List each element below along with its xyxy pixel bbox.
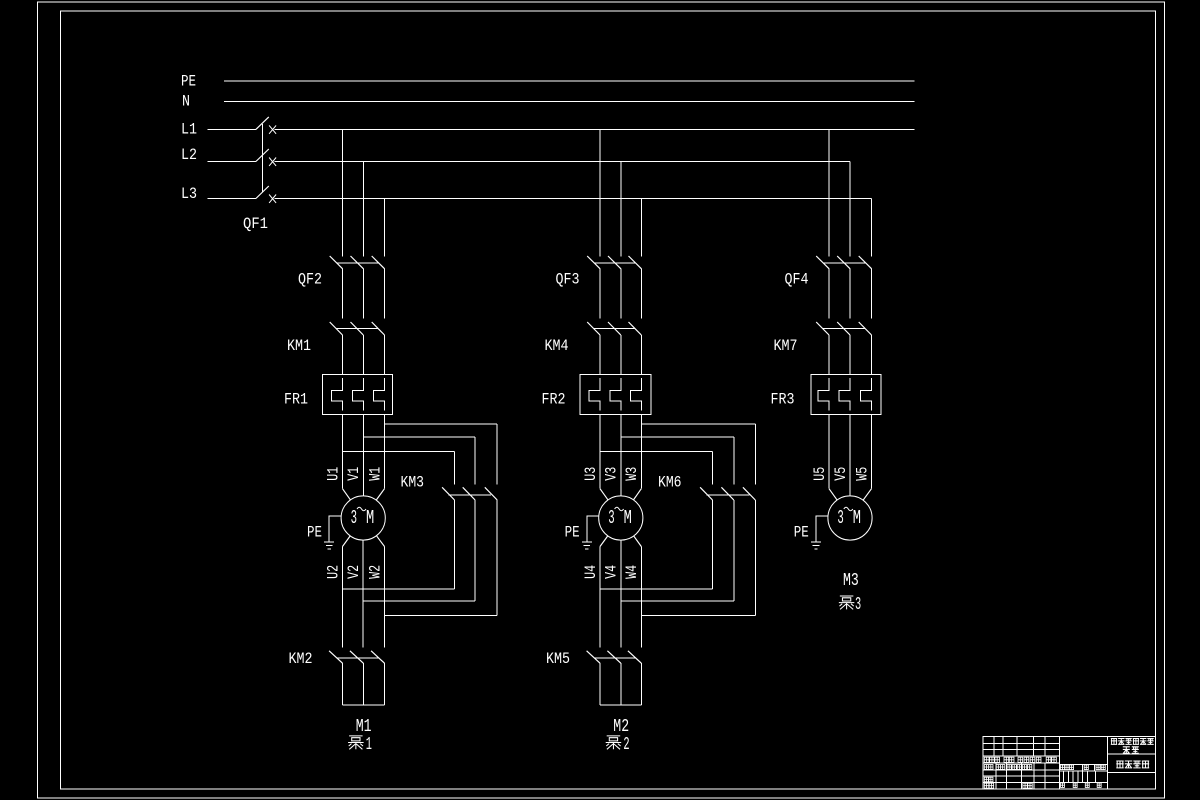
node star point bar (motor M2): [600, 704, 641, 706]
wire KM3 pole 3 lower: [496, 500, 498, 616]
circuit-breaker QF4 pole 1 blade: [816, 256, 829, 269]
circuit-breaker QF3 pole 1 blade: [587, 256, 600, 269]
wire branch1 phase-1 slant into motor: [343, 489, 351, 500]
title block left grid columns lower: [996, 763, 1045, 789]
svg-text:L3: L3: [181, 185, 197, 203]
wire branch3 phase-2 FR3 to motor: [849, 414, 851, 496]
svg-text:W3: W3: [623, 467, 641, 481]
wire branch2 phase-3 FR2 to motor: [640, 414, 642, 488]
wire KM2 pole 3 to star point: [384, 663, 386, 705]
contactor KM5 pole 3 blade: [628, 651, 641, 663]
wire branch2 phase-1 FR2 to motor: [599, 414, 601, 488]
title block left grid rows: [983, 744, 1059, 783]
svg-text:U3: U3: [582, 467, 600, 481]
title block outline: [983, 737, 1155, 790]
wire branch2 terminal 2-1 to KM5: [599, 547, 601, 648]
contactor KM1 pole 2 blade: [351, 322, 364, 335]
contactor KM4 linkage bar: [594, 328, 635, 330]
label pump M3: [839, 595, 861, 615]
wire branch3 phase-1 slant into motor: [829, 489, 837, 500]
contactor KM4 pole 1 blade: [587, 322, 600, 335]
svg-text:FR3: FR3: [771, 391, 795, 409]
wire branch3 phase-1 drop from L1: [828, 129, 830, 256]
wire branch3 phase-3 drop from L3: [871, 199, 873, 257]
svg-text:U4: U4: [582, 565, 600, 579]
contactor KM4 pole 2 blade: [608, 322, 621, 335]
wire KM3 pole 1 upper: [454, 452, 456, 485]
svg-text:KM1: KM1: [287, 337, 311, 355]
wire motor M2 terminal 2-1 slant: [600, 536, 608, 547]
thermal-relay FR2 heater element 3: [630, 378, 641, 411]
wire branch1 phase-3 slant into motor: [376, 489, 384, 500]
svg-text:QF3: QF3: [556, 271, 580, 289]
circuit-breaker QF2 pole 1 blade: [330, 256, 343, 269]
ground symbol (motor M3): [811, 542, 821, 549]
wire branch1 terminal 2-1 to KM2: [342, 547, 344, 648]
svg-text:KM4: KM4: [545, 337, 569, 355]
svg-text:N: N: [182, 93, 190, 111]
isolator QF1 L3 fuse x-mark: [269, 195, 276, 203]
wire branch2 phase-3 slant into motor: [633, 489, 641, 500]
title block school name line 2: [1123, 746, 1139, 753]
wire branch2 phase-2 KM4 to FR2: [620, 335, 622, 374]
wire branch3 phase-3 KM7 to FR3: [871, 335, 873, 374]
wire motor M2 terminal 2-2 down: [620, 540, 622, 647]
svg-text:PE: PE: [181, 73, 196, 91]
svg-text:PE: PE: [307, 524, 322, 542]
svg-text:U2: U2: [324, 565, 342, 579]
wire branch3 phase-3 FR3 to motor: [871, 414, 873, 488]
wire tap branch1 phase-1 to KM3 pole 1: [343, 451, 455, 453]
wire KM2 pole 2 to star point: [362, 663, 364, 705]
wire tap branch1 phase-3 to KM3 pole 3: [385, 423, 498, 425]
svg-text:V1: V1: [345, 467, 363, 481]
wire branch1 phase-1 FR1 to motor: [342, 414, 344, 488]
wire branch3 phase-1 KM7 to FR3: [828, 335, 830, 374]
circuit-breaker QF2 pole 3 blade: [372, 256, 385, 269]
title block middle label row columns: [1082, 765, 1094, 772]
wire tap branch2 phase-1 to KM6 pole 1: [600, 451, 713, 453]
thermal-relay FR1 heater element 1: [332, 378, 343, 411]
wire branch2 phase-3 drop from L3: [640, 199, 642, 257]
isolator QF1 L1 blade: [256, 117, 269, 129]
wire motor M1 terminal 2-3 slant: [376, 536, 384, 547]
wire tap branch2 phase-3 to KM6 pole 3: [641, 423, 755, 425]
wire KM6 pole 3 lower: [754, 500, 756, 616]
circuit-breaker QF4 linkage bar: [823, 262, 866, 264]
contactor KM2 pole 2 blade: [350, 651, 363, 663]
label pump M1: [348, 735, 372, 755]
svg-text:M2: M2: [613, 717, 629, 737]
svg-text:3: 3: [837, 507, 843, 529]
wire branch1 phase-2 FR1 to motor: [362, 414, 364, 496]
svg-text:M: M: [853, 507, 861, 529]
contactor KM5 linkage bar: [594, 657, 635, 659]
wire branch2 terminal 2-3 to KM5: [640, 547, 642, 648]
wire link motor terminal 2-1 to KM3 pole 1: [343, 588, 455, 590]
wire KM6 pole 2 upper: [733, 437, 735, 485]
wire branch2 phase-1 slant into motor: [600, 489, 608, 500]
wire motor M3 frame to earth: [816, 516, 828, 542]
svg-text:W4: W4: [623, 565, 641, 579]
wire branch2 phase-3 KM4 to FR2: [640, 335, 642, 374]
ground symbol (motor M1): [324, 542, 334, 549]
wire branch3 phase-2 KM7 to FR3: [849, 335, 851, 374]
svg-text:PE: PE: [794, 524, 809, 542]
svg-text:V2: V2: [345, 565, 363, 579]
svg-text:W5: W5: [853, 467, 871, 481]
wire KM3 pole 3 upper: [496, 424, 498, 485]
svg-text:M: M: [366, 507, 374, 529]
label pump M2: [606, 735, 630, 755]
ground symbol (motor M2): [582, 542, 592, 549]
title block school name line 1: [1111, 738, 1154, 744]
wire branch1 phase-3 KM1 to FR1: [384, 335, 386, 374]
bus wire L3: [275, 198, 872, 200]
thermal-relay FR3 heater element 3: [861, 378, 872, 411]
motor M3 circle: [828, 496, 872, 540]
thermal-relay FR2 heater element 2: [610, 378, 621, 411]
wire branch1 phase-3 drop from L3: [384, 199, 386, 257]
wire link motor terminal 2-3 to KM6 pole 3: [641, 615, 755, 617]
circuit-breaker QF4 pole 2 blade: [837, 256, 850, 269]
contactor KM3 pole 3 blade: [485, 487, 497, 500]
wire branch3 phase-2 drop from L2: [849, 162, 851, 257]
svg-text:2: 2: [623, 735, 629, 755]
motor M1 tilde: [357, 507, 366, 510]
wire motor M1 terminal 2-2 down: [362, 540, 364, 647]
wire link motor terminal 2-1 to KM6 pole 1: [600, 588, 713, 590]
wire branch2 phase-2 drop from L2: [620, 162, 622, 257]
wire branch1 phase-2 QF2 to KM1: [362, 269, 364, 319]
circuit-breaker QF3 pole 3 blade: [629, 256, 642, 269]
svg-text:KM2: KM2: [289, 650, 313, 668]
bus wire L2 left stub: [208, 161, 256, 163]
contactor KM6 pole 2 blade: [721, 487, 733, 500]
wire KM6 pole 1 upper: [712, 452, 714, 485]
svg-text:M1: M1: [356, 717, 372, 737]
title block sheet count text: [1061, 783, 1102, 787]
title block middle labels: [1060, 765, 1105, 770]
node star point bar (motor M1): [343, 704, 385, 706]
wire tap branch2 phase-2 to KM6 pole 2: [621, 436, 734, 438]
bus wire L1 left stub: [208, 128, 256, 130]
circuit-breaker QF4 pole 3 blade: [859, 256, 872, 269]
wire KM3 pole 2 upper: [474, 437, 476, 485]
wire link motor terminal 2-2 to KM6 pole 2: [621, 600, 734, 602]
svg-text:KM5: KM5: [546, 650, 570, 668]
bus wire PE: [224, 80, 914, 82]
wire branch3 phase-3 QF4 to KM7: [871, 269, 873, 319]
wire branch2 phase-1 QF3 to KM4: [599, 269, 601, 319]
title block row texts (signature fields): [984, 757, 1056, 788]
contactor KM2 pole 3 blade: [371, 651, 384, 663]
contactor KM5 pole 2 blade: [607, 651, 620, 663]
wire KM3 pole 1 lower: [454, 500, 456, 589]
motor M3 tilde: [844, 507, 853, 510]
svg-text:3: 3: [608, 507, 614, 529]
circuit-breaker QF2 pole 2 blade: [351, 256, 364, 269]
wire branch1 phase-1 KM1 to FR1: [342, 335, 344, 374]
circuit-breaker QF3 pole 2 blade: [608, 256, 621, 269]
title block right rows: [1107, 754, 1155, 773]
contactor KM6 linkage bar: [707, 494, 750, 496]
contactor KM1 pole 3 blade: [372, 322, 385, 335]
title block main dividers: [1060, 737, 1108, 790]
motor M1 circle: [341, 496, 385, 540]
svg-text:3: 3: [855, 595, 861, 615]
contactor KM7 linkage bar: [823, 328, 866, 330]
svg-text:M3: M3: [843, 571, 859, 591]
thermal-relay FR3 heater element 1: [818, 378, 829, 411]
isolator QF1 L1 fuse x-mark: [269, 125, 276, 133]
svg-text:W1: W1: [366, 467, 384, 481]
contactor KM6 pole 1 blade: [700, 487, 712, 500]
contactor KM4 pole 3 blade: [629, 322, 642, 335]
bus wire L2: [275, 161, 850, 163]
thermal-relay FR3 heater element 2: [839, 378, 850, 411]
wire tap branch1 phase-2 to KM3 pole 2: [363, 436, 475, 438]
thermal-relay FR3 box: [811, 374, 881, 414]
svg-text:QF2: QF2: [298, 271, 322, 289]
wire branch1 phase-3 QF2 to KM1: [384, 269, 386, 319]
svg-text:FR1: FR1: [284, 391, 308, 409]
wire KM5 pole 3 to star point: [640, 663, 642, 705]
bus wire N: [224, 101, 914, 103]
isolator QF1 L2 blade: [256, 149, 269, 162]
title block left grid columns upper: [994, 737, 1045, 757]
svg-text:U5: U5: [811, 467, 829, 481]
thermal-relay FR2 heater element 1: [589, 378, 600, 411]
svg-text:PE: PE: [565, 524, 580, 542]
isolator QF1 linkage bar: [261, 124, 263, 193]
wire KM6 pole 3 upper: [754, 424, 756, 485]
svg-text:L1: L1: [181, 120, 197, 138]
wire motor M2 frame to earth: [587, 516, 599, 542]
wire branch2 phase-1 KM4 to FR2: [599, 335, 601, 374]
svg-text:KM3: KM3: [401, 474, 425, 492]
svg-text:L2: L2: [181, 146, 197, 164]
contactor KM1 pole 1 blade: [330, 322, 343, 335]
circuit-breaker QF3 linkage bar: [594, 262, 635, 264]
svg-text:1: 1: [366, 735, 372, 755]
wire link motor terminal 2-2 to KM3 pole 2: [363, 600, 475, 602]
wire branch1 phase-2 KM1 to FR1: [362, 335, 364, 374]
svg-text:V4: V4: [603, 565, 621, 579]
wire branch2 phase-2 QF3 to KM4: [620, 269, 622, 319]
contactor KM1 linkage bar: [337, 328, 379, 330]
contactor KM3 pole 2 blade: [463, 487, 475, 500]
wire KM2 pole 1 to star point: [342, 663, 344, 705]
thermal-relay FR1 heater element 2: [352, 378, 363, 411]
wire branch2 phase-2 FR2 to motor: [620, 414, 622, 496]
bus wire L1: [275, 128, 915, 130]
svg-text:U1: U1: [324, 467, 342, 481]
svg-text:V3: V3: [603, 467, 621, 481]
wire branch3 phase-1 FR3 to motor: [828, 414, 830, 488]
bus wire L3 left stub: [208, 198, 256, 200]
title block drawing title text: [1116, 761, 1149, 768]
wire KM6 pole 1 lower: [712, 500, 714, 589]
svg-text:KM6: KM6: [658, 474, 682, 492]
wire branch3 phase-2 QF4 to KM7: [849, 269, 851, 319]
wire KM5 pole 2 to star point: [620, 663, 622, 705]
motor M2 tilde: [615, 507, 624, 510]
contactor KM2 pole 1 blade: [329, 651, 342, 663]
svg-text:QF4: QF4: [785, 271, 809, 289]
wire KM5 pole 1 to star point: [599, 663, 601, 705]
svg-text:KM7: KM7: [774, 337, 798, 355]
contactor KM2 linkage bar: [337, 657, 379, 659]
title block middle rows: [1060, 765, 1108, 783]
wire branch3 phase-1 QF4 to KM7: [828, 269, 830, 319]
isolator QF1 L3 blade: [256, 186, 269, 199]
thermal-relay FR2 box: [580, 374, 651, 414]
wire KM6 pole 2 lower: [733, 500, 735, 601]
svg-text:W2: W2: [366, 565, 384, 579]
contactor KM3 pole 1 blade: [442, 487, 454, 500]
title block middle small cells: [1064, 771, 1096, 782]
svg-text:M: M: [624, 507, 632, 529]
circuit-breaker QF2 linkage bar: [337, 262, 379, 264]
wire motor M1 terminal 2-1 slant: [343, 536, 351, 547]
wire branch1 phase-1 QF2 to KM1: [342, 269, 344, 319]
wire branch3 phase-3 slant into motor: [863, 489, 871, 500]
wire branch1 terminal 2-3 to KM2: [384, 547, 386, 648]
wire branch2 phase-3 QF3 to KM4: [640, 269, 642, 319]
wire KM3 pole 2 lower: [474, 500, 476, 601]
contactor KM3 linkage bar: [449, 494, 492, 496]
svg-text:FR2: FR2: [542, 391, 566, 409]
svg-text:3: 3: [351, 507, 357, 529]
contactor KM6 pole 3 blade: [743, 487, 755, 500]
svg-text:QF1: QF1: [243, 215, 268, 233]
thermal-relay FR1 heater element 3: [374, 378, 385, 411]
motor M2 circle: [599, 496, 643, 540]
wire branch2 phase-1 drop from L1: [599, 129, 601, 256]
wire branch1 phase-2 drop from L2: [362, 162, 364, 257]
contactor KM7 pole 1 blade: [816, 322, 829, 335]
thermal-relay FR1 box: [323, 374, 393, 414]
isolator QF1 L2 fuse x-mark: [269, 158, 276, 166]
wire branch1 phase-3 FR1 to motor: [384, 414, 386, 488]
contactor KM5 pole 1 blade: [587, 651, 600, 663]
wire branch1 phase-1 drop from L1: [342, 129, 344, 256]
wire link motor terminal 2-3 to KM3 pole 3: [385, 615, 498, 617]
wire motor M1 frame to earth: [329, 516, 341, 542]
contactor KM7 pole 2 blade: [837, 322, 850, 335]
wire motor M2 terminal 2-3 slant: [634, 536, 642, 547]
svg-text:V5: V5: [832, 467, 850, 481]
contactor KM7 pole 3 blade: [859, 322, 872, 335]
